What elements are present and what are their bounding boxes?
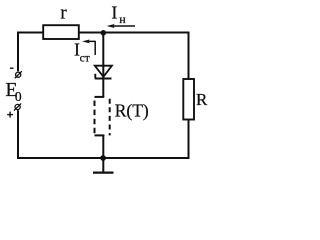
svg-text:I: I bbox=[111, 3, 117, 23]
svg-text:ст: ст bbox=[80, 52, 90, 64]
svg-text:R(T): R(T) bbox=[115, 101, 149, 121]
svg-text:н: н bbox=[119, 12, 126, 26]
svg-text:R: R bbox=[196, 90, 208, 109]
svg-text:r: r bbox=[60, 3, 67, 24]
svg-text:0: 0 bbox=[15, 89, 22, 104]
